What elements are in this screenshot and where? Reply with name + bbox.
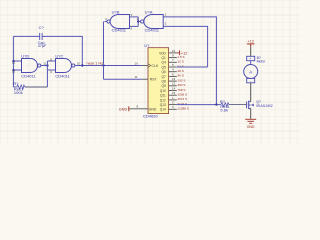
svg-text:CD4011: CD4011 xyxy=(55,74,70,79)
pin Q4 xyxy=(169,61,177,63)
CLK arrow mark xyxy=(148,64,150,67)
svg-text:GND: GND xyxy=(247,125,255,129)
resistor R1 wire right xyxy=(25,86,48,88)
node: junction U?B output vertical on clock wire xyxy=(102,64,104,66)
svg-text:12: 12 xyxy=(172,82,176,86)
resistor R2 wire to MOSFET gate xyxy=(229,104,247,106)
pin Q7 xyxy=(169,75,177,77)
svg-text:6144 S: 6144 S xyxy=(177,102,187,106)
MOSFET Q1 drain stub xyxy=(249,101,251,103)
svg-text:Q11: Q11 xyxy=(160,94,166,98)
node: junction cap drop on clock wire xyxy=(81,64,83,66)
svg-text:10: 10 xyxy=(77,62,81,66)
pin Q5 xyxy=(169,66,177,68)
svg-text:14: 14 xyxy=(172,86,176,90)
pin Q10 xyxy=(169,90,177,92)
svg-text:Q10: Q10 xyxy=(160,89,166,93)
svg-text:768 S: 768 S xyxy=(177,88,185,92)
svg-text:IRLML2402: IRLML2402 xyxy=(256,104,273,108)
capacitor C1 plates xyxy=(40,33,42,40)
pin Q14 xyxy=(169,108,177,110)
motor B1 connecting stems xyxy=(250,61,252,65)
NAND gate U?D body xyxy=(22,59,38,73)
svg-text:100k: 100k xyxy=(14,90,23,95)
node: junction outer vertical on Q13 wire xyxy=(215,103,217,105)
MOSFET Q1 body stub with arrow xyxy=(249,104,251,106)
svg-text:Q8: Q8 xyxy=(162,80,166,84)
NAND gate U?C bubble xyxy=(72,64,75,67)
motor B1 circle xyxy=(244,65,258,79)
wire: clock wire U?C output pin10 to CLK xyxy=(75,65,142,67)
svg-text:Motor: Motor xyxy=(257,60,267,64)
pin Q13 xyxy=(169,104,177,106)
wire: U?B input stub pin6 xyxy=(130,25,139,27)
MOSFET Q1 channel bar xyxy=(248,101,250,110)
svg-text:Q12: Q12 xyxy=(160,98,166,102)
pin Q6 xyxy=(169,71,177,73)
svg-text:R?: R? xyxy=(13,81,19,86)
node: junction dot at U?D pin13 xyxy=(12,69,14,71)
power port +12 above motor xyxy=(247,43,255,45)
wire: U?C input stub pin9 xyxy=(47,69,55,71)
pin Q1 xyxy=(169,57,177,59)
wire: U?D output pin 11 xyxy=(41,65,47,67)
wire: RST wire xyxy=(104,78,142,80)
node: junction at U?D out / U?C in xyxy=(46,64,48,66)
svg-text:Q9: Q9 xyxy=(162,84,166,88)
NAND gate U?B body (mirrored) xyxy=(110,15,129,29)
NAND gate U?D bubble xyxy=(38,64,41,67)
svg-text:near 1 Hz: near 1 Hz xyxy=(87,61,104,65)
svg-text:+12: +12 xyxy=(248,39,254,43)
wire: U?A output to U?B inputs xyxy=(138,21,140,23)
svg-text:CD4011: CD4011 xyxy=(112,27,127,32)
wire: cap wire right segment to vertical drop xyxy=(42,36,82,65)
svg-text:Q14: Q14 xyxy=(160,108,166,112)
svg-text:Q13: Q13 xyxy=(160,103,166,107)
svg-text:Q1: Q1 xyxy=(162,56,166,60)
svg-text:12: 12 xyxy=(12,60,16,64)
pin Q9 xyxy=(169,85,177,87)
wire: gate U?D input stub pin12 xyxy=(13,60,21,62)
pin RST 11 stub xyxy=(142,78,148,80)
svg-text:96 S: 96 S xyxy=(177,74,183,78)
MOSFET Q1 source stub xyxy=(249,107,251,109)
svg-text:384 S: 384 S xyxy=(177,83,185,87)
svg-text:CD4011: CD4011 xyxy=(145,27,160,32)
MOSFET Q1 gate bar xyxy=(246,102,248,109)
svg-text:1.5 S: 1.5 S xyxy=(177,55,184,59)
pin VDD 16 stub xyxy=(169,52,177,54)
svg-text:11: 11 xyxy=(43,62,46,66)
svg-text:Q4: Q4 xyxy=(162,61,166,65)
svg-text:C?: C? xyxy=(39,25,45,30)
svg-text:13: 13 xyxy=(172,77,176,81)
wire: tie bar U?B inputs xyxy=(137,17,139,27)
svg-text:Q6: Q6 xyxy=(162,70,166,74)
NAND gate U?B bubble xyxy=(107,20,110,23)
svg-text:16: 16 xyxy=(172,49,176,53)
power port +12 at VDD xyxy=(177,52,180,54)
svg-text:RST: RST xyxy=(150,78,157,82)
svg-text:+: + xyxy=(249,57,251,61)
wire: gate U?D input stub pin13 xyxy=(13,69,21,71)
pin CLK 10 stub xyxy=(142,65,148,67)
node: junction dot at U?D pin12 xyxy=(12,60,14,62)
pin Q12 xyxy=(169,99,177,101)
svg-text:5.6k: 5.6k xyxy=(220,108,228,113)
power port GND at pin 8 xyxy=(128,106,130,111)
wire: U?B output stub pin4 xyxy=(105,21,107,23)
wire: Q13 wire to gate resistor xyxy=(177,104,221,106)
svg-text:A: A xyxy=(249,69,252,74)
svg-text:11: 11 xyxy=(135,75,138,79)
svg-text:U?C: U?C xyxy=(55,54,63,59)
NAND gate U?C body xyxy=(56,59,72,73)
svg-text:GND: GND xyxy=(149,107,157,111)
svg-text:48 S: 48 S xyxy=(177,69,183,73)
svg-text:3072 S: 3072 S xyxy=(177,97,187,101)
svg-text:1536 S: 1536 S xyxy=(177,93,187,97)
svg-text:CLK: CLK xyxy=(152,64,159,68)
wire: vertical tie U?C inputs down to resistor xyxy=(46,61,48,87)
wire: MOSFET drain to motor xyxy=(250,83,252,102)
svg-text:CD4011: CD4011 xyxy=(21,74,36,79)
svg-text:U?A: U?A xyxy=(145,10,153,15)
motor B1 bottom terminal box xyxy=(247,78,255,82)
svg-text:192 S: 192 S xyxy=(177,78,185,82)
pin GND 8 stub xyxy=(129,108,148,110)
wire: node A top wire (cap wire) left segment xyxy=(13,35,39,37)
wire: left vertical node A xyxy=(12,36,14,87)
svg-text:U?: U? xyxy=(144,43,150,48)
wire: U?A input pin1 to outer vertical xyxy=(163,17,216,105)
svg-text:Q5: Q5 xyxy=(162,65,166,69)
node: junction tie bar to U?A output xyxy=(137,20,139,22)
IC U1 CD4020 body xyxy=(148,48,169,114)
wire: U?B input stub pin5 xyxy=(130,16,139,18)
svg-text:15: 15 xyxy=(172,91,176,95)
wire: +12 to motor xyxy=(250,47,252,57)
svg-text:13: 13 xyxy=(12,70,16,74)
resistor R1 zigzag xyxy=(17,85,25,89)
wire: U?A input pin2 to inner vertical xyxy=(163,26,207,67)
resistor R2 zigzag xyxy=(221,103,229,107)
NAND gate U?A bubble xyxy=(141,20,144,23)
svg-text:12288 S: 12288 S xyxy=(177,107,189,111)
svg-text:U?B: U?B xyxy=(112,10,120,15)
wire: Q5 to U?A pin2 vertical xyxy=(177,66,208,68)
pin Q8 xyxy=(169,80,177,82)
power port GND below MOSFET xyxy=(245,119,256,123)
resistor R1 wire left xyxy=(13,86,16,88)
svg-text:47µF: 47µF xyxy=(38,44,47,48)
svg-text:VDD: VDD xyxy=(159,51,166,55)
svg-text:R?: R? xyxy=(220,99,226,104)
svg-text:CD4020: CD4020 xyxy=(143,113,158,118)
wire: MOSFET source to GND xyxy=(250,108,252,118)
svg-text:10: 10 xyxy=(135,61,139,65)
svg-text:12 S: 12 S xyxy=(177,60,183,64)
motor B1 top terminal box xyxy=(247,56,255,60)
wire: U?B output down to RST xyxy=(103,22,105,80)
svg-text:24 S: 24 S xyxy=(177,64,183,68)
svg-text:Q7: Q7 xyxy=(162,75,166,79)
pin Q11 xyxy=(169,94,177,96)
NAND gate U?A body (mirrored) xyxy=(144,15,163,29)
svg-text:GND: GND xyxy=(119,108,128,112)
wire: U?C input stub pin8 xyxy=(47,60,55,62)
svg-text:U?D: U?D xyxy=(21,54,29,59)
